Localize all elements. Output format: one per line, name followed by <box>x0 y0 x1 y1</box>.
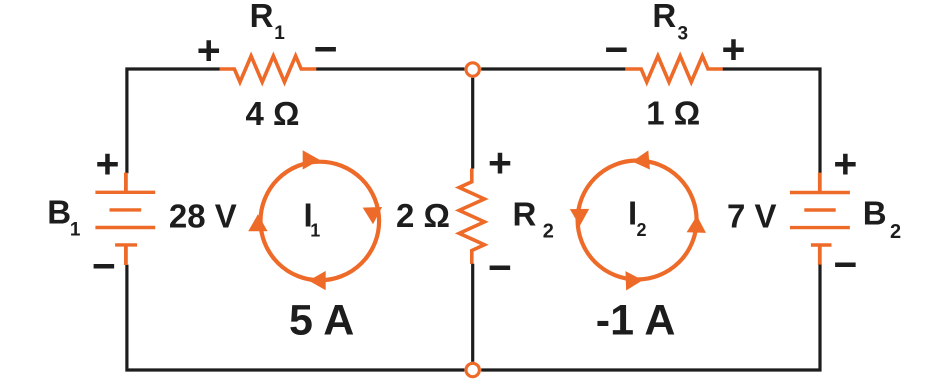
svg-text:+: + <box>833 140 857 186</box>
wire top-left: B1 + terminal up to top-left corner, across to R1 <box>127 69 220 173</box>
wire top-middle-left: R1 to node A <box>316 67 464 70</box>
mesh current loop I1 (clockwise) <box>261 162 380 281</box>
svg-text:R: R <box>513 196 537 233</box>
I2 arrow right <box>687 215 707 233</box>
I1 arrow top <box>303 150 320 169</box>
I1 arrow right <box>363 207 383 225</box>
svg-text:+: + <box>197 27 221 73</box>
I2 arrow bottom <box>625 271 643 291</box>
wire top-middle-right: node A to R3 <box>481 67 625 70</box>
svg-text:−: − <box>488 245 512 291</box>
svg-text:R: R <box>250 0 274 34</box>
I1 arrow left <box>248 214 267 231</box>
svg-text:1: 1 <box>310 221 320 241</box>
svg-text:−: − <box>605 26 629 72</box>
svg-text:−: − <box>92 243 116 289</box>
svg-text:+: + <box>488 140 512 186</box>
battery B2 <box>790 173 850 265</box>
wire bottom-left: node B across bottom-left corner up to B1 − terminal <box>127 265 465 370</box>
svg-text:+: + <box>96 140 120 186</box>
node B (bottom junction) <box>466 363 479 376</box>
resistor R3 <box>625 56 723 82</box>
svg-text:1: 1 <box>274 23 285 44</box>
label I1 <box>304 197 321 241</box>
svg-text:+: + <box>722 26 746 72</box>
I1 arrow bottom <box>309 271 326 290</box>
svg-text:1 Ω: 1 Ω <box>646 95 700 132</box>
label R3 <box>652 0 688 44</box>
wire middle-bottom: R2 down to node B <box>471 264 474 362</box>
svg-text:2 Ω: 2 Ω <box>396 197 450 234</box>
svg-text:−: − <box>834 241 858 287</box>
label R1 <box>250 0 286 44</box>
label I2 <box>628 195 647 241</box>
svg-text:28 V: 28 V <box>169 197 237 234</box>
wire top-right: R3 across top-right corner down to B2 + terminal <box>723 69 820 173</box>
svg-text:−: − <box>314 26 338 72</box>
resistor R1 <box>220 56 317 82</box>
node A (top junction) <box>466 63 479 76</box>
svg-text:R: R <box>652 0 676 34</box>
svg-text:2: 2 <box>543 221 554 243</box>
svg-text:2: 2 <box>890 221 901 243</box>
svg-text:5 A: 5 A <box>289 297 354 345</box>
svg-text:1: 1 <box>70 220 81 241</box>
I2 arrow left <box>570 209 590 226</box>
svg-text:B: B <box>863 195 887 232</box>
svg-text:2: 2 <box>637 220 647 240</box>
svg-text:4 Ω: 4 Ω <box>246 95 300 132</box>
svg-text:7 V: 7 V <box>727 197 777 234</box>
label B2 <box>863 195 901 243</box>
svg-text:3: 3 <box>678 23 689 44</box>
battery B1 <box>95 173 155 265</box>
mesh current loop I2 (counterclockwise) <box>578 161 697 280</box>
svg-text:B: B <box>47 193 71 230</box>
svg-text:-1 A: -1 A <box>596 296 676 344</box>
I2 arrow top <box>631 150 650 171</box>
wire right-bottom: B2 − terminal down, across bottom to node B <box>481 265 820 370</box>
wire middle-top: node A down to R2 <box>471 78 474 169</box>
resistor R2 <box>459 169 484 264</box>
label R2 <box>513 196 554 243</box>
label B1 <box>47 193 81 240</box>
